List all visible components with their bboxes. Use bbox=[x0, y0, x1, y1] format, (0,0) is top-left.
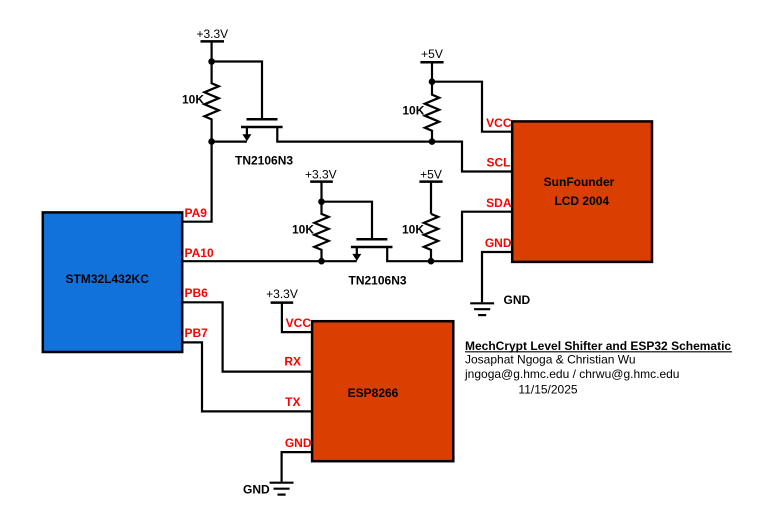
wire ESP GND pin to ground bbox=[282, 452, 313, 482]
pin label TX bbox=[285, 395, 300, 409]
pin label PA10 bbox=[185, 246, 214, 260]
pin label VCC (ESP) bbox=[286, 316, 312, 330]
label TN2106N3 for M1 bbox=[235, 154, 293, 168]
svg-text:+5V: +5V bbox=[420, 167, 442, 181]
power +3.3V rail 3 label (ESP) bbox=[266, 287, 298, 301]
transistor M1 TN2106N3 bbox=[241, 119, 283, 141]
wire +5V bar to node C bbox=[431, 62, 433, 81]
pin label PB6 bbox=[185, 286, 209, 300]
resistor R4 10K bbox=[424, 214, 438, 261]
power +3.3V rail 2 label bbox=[305, 167, 337, 181]
svg-text:TX: TX bbox=[285, 395, 300, 409]
svg-text:VCC: VCC bbox=[486, 116, 512, 130]
svg-text:TN2106N3: TN2106N3 bbox=[235, 154, 293, 168]
svg-text:GND: GND bbox=[504, 293, 531, 307]
IC ESP8266 block bbox=[312, 321, 453, 461]
title authors line bbox=[465, 353, 636, 367]
node G junction bbox=[428, 258, 435, 265]
power +3.3V rail 2 bar bbox=[310, 180, 333, 183]
node A junction bbox=[208, 58, 215, 65]
wire +3.3V bar to node E bbox=[320, 182, 322, 202]
wire PB6 to RX bbox=[182, 302, 312, 371]
label TN2106N3 for M2 bbox=[349, 273, 407, 287]
pin label GND (LCD) red bbox=[485, 236, 512, 250]
wire M1 drain to +5V node D bbox=[277, 128, 432, 142]
label GND black (ESP ground) bbox=[243, 482, 270, 496]
title underline bbox=[465, 351, 732, 353]
svg-text:SCL: SCL bbox=[487, 156, 511, 170]
pin label SDA (LCD) bbox=[486, 196, 512, 210]
ground symbol (ESP) bbox=[270, 483, 294, 495]
title text MechCrypt Level Shifter and ESP32 Schematic bbox=[465, 339, 731, 353]
svg-text:MechCrypt Level Shifter and ES: MechCrypt Level Shifter and ESP32 Schema… bbox=[465, 339, 731, 353]
power +3.3V rail 3 bar bbox=[271, 301, 294, 304]
wire M2 drain to node G bbox=[387, 248, 431, 261]
node E junction bbox=[318, 198, 325, 205]
label 10K for R4 bbox=[402, 223, 424, 237]
power +5V rail 1 label bbox=[421, 47, 443, 61]
svg-text:+3.3V: +3.3V bbox=[305, 167, 337, 181]
node F junction bbox=[318, 258, 325, 265]
transistor M2 TN2106N3 bbox=[351, 239, 393, 261]
resistor R3 10K bbox=[314, 202, 328, 262]
svg-text:LCD 2004: LCD 2004 bbox=[554, 194, 609, 208]
wire PA10 from STM32 to M2 source bbox=[182, 260, 357, 262]
pin label GND (ESP) red bbox=[285, 436, 312, 450]
svg-text:GND: GND bbox=[285, 436, 312, 450]
wire +3.3V bar to node A bbox=[211, 41, 213, 61]
svg-text:TN2106N3: TN2106N3 bbox=[349, 273, 407, 287]
resistor R2 10K bbox=[425, 82, 439, 142]
svg-text:SDA: SDA bbox=[486, 196, 512, 210]
IC STM32L432KC block bbox=[43, 212, 182, 352]
svg-text:PB7: PB7 bbox=[185, 326, 209, 340]
node B junction bbox=[208, 138, 215, 145]
svg-text:10K: 10K bbox=[182, 93, 204, 107]
svg-text:jngoga@g.hmc.edu / chrwu@g.hmc: jngoga@g.hmc.edu / chrwu@g.hmc.edu bbox=[464, 367, 679, 381]
title date line bbox=[518, 383, 577, 397]
label 10K for R3 bbox=[292, 223, 314, 237]
svg-text:GND: GND bbox=[485, 236, 512, 250]
svg-text:RX: RX bbox=[284, 355, 301, 369]
power +5V rail 2 bar bbox=[419, 180, 442, 183]
wire node B to M1 source bbox=[212, 141, 247, 143]
wire VCC branch to LCD bbox=[432, 82, 513, 132]
power +3.3V rail 1 bar bbox=[201, 40, 225, 43]
wire +3.3V to ESP VCC bbox=[282, 303, 312, 333]
wire LCD GND pin to ground bbox=[482, 252, 513, 302]
wire PB7 to TX bbox=[182, 342, 312, 411]
svg-text:+3.3V: +3.3V bbox=[196, 27, 228, 41]
pin label PB7 bbox=[185, 326, 209, 340]
label SunFounder bbox=[544, 175, 615, 189]
label 10K for R1 bbox=[182, 93, 204, 107]
node C junction bbox=[429, 78, 436, 85]
svg-text:+5V: +5V bbox=[421, 47, 443, 61]
label GND black (LCD ground) bbox=[504, 293, 531, 307]
label ESP8266 bbox=[348, 386, 399, 400]
power +5V rail 1 bar bbox=[420, 61, 443, 64]
svg-text:GND: GND bbox=[243, 482, 270, 496]
IC SunFounder LCD 2004 block bbox=[512, 121, 652, 262]
svg-text:11/15/2025: 11/15/2025 bbox=[518, 383, 577, 397]
svg-text:PB6: PB6 bbox=[185, 286, 209, 300]
svg-text:10K: 10K bbox=[292, 223, 314, 237]
wire PA9 bbox=[182, 142, 212, 222]
wire node E to M2 gate bbox=[322, 202, 373, 239]
pin label PA9 bbox=[185, 206, 208, 220]
svg-text:ESP8266: ESP8266 bbox=[348, 386, 399, 400]
pin label VCC (LCD) bbox=[486, 116, 512, 130]
label LCD 2004 bbox=[554, 194, 609, 208]
pin label RX bbox=[284, 355, 301, 369]
power +5V rail 2 label bbox=[420, 167, 442, 181]
label STM32L432KC bbox=[66, 272, 150, 286]
svg-text:PA9: PA9 bbox=[185, 206, 208, 220]
power +3.3V rail 1 label bbox=[196, 27, 228, 41]
svg-text:+3.3V: +3.3V bbox=[266, 287, 298, 301]
wire SDA branch to LCD bbox=[431, 212, 513, 262]
wire SCL branch to LCD bbox=[432, 142, 513, 172]
wire node A to M1 gate bbox=[212, 62, 262, 119]
label 10K for R2 bbox=[402, 103, 424, 117]
svg-text:Josaphat Ngoga & Christian Wu: Josaphat Ngoga & Christian Wu bbox=[465, 353, 636, 367]
node D junction bbox=[429, 138, 436, 145]
svg-text:STM32L432KC: STM32L432KC bbox=[66, 272, 150, 286]
svg-text:10K: 10K bbox=[402, 103, 424, 117]
svg-text:VCC: VCC bbox=[286, 316, 312, 330]
svg-text:10K: 10K bbox=[402, 223, 424, 237]
svg-text:SunFounder: SunFounder bbox=[544, 175, 615, 189]
resistor R1 10K bbox=[204, 62, 218, 142]
wire +5V bar to R4 bbox=[430, 182, 432, 214]
ground symbol (LCD) bbox=[470, 303, 494, 315]
title emails line bbox=[464, 367, 679, 381]
svg-text:PA10: PA10 bbox=[185, 246, 214, 260]
pin label SCL (LCD) bbox=[487, 156, 511, 170]
